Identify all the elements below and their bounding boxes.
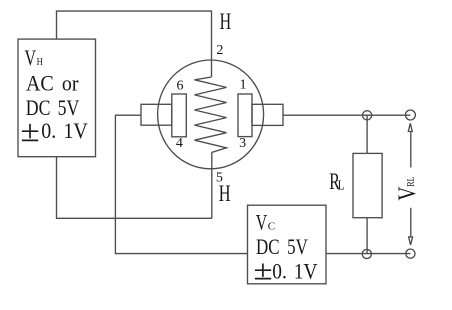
terminal bottom-right bbox=[406, 249, 415, 258]
svg-text:C: C bbox=[268, 222, 275, 233]
VRL arrow down bbox=[409, 237, 413, 245]
svg-text:2: 2 bbox=[216, 43, 223, 58]
voltage source VC box bbox=[248, 205, 327, 284]
terminal top-right bbox=[405, 110, 415, 120]
heater resistor zigzag bbox=[195, 77, 227, 153]
svg-text:L: L bbox=[338, 177, 345, 192]
wire: top junction down to RL bbox=[366, 115, 368, 153]
svg-text:1: 1 bbox=[240, 78, 247, 93]
svg-text:H: H bbox=[220, 9, 232, 34]
svg-text:6: 6 bbox=[177, 78, 184, 93]
resistor RL bbox=[353, 153, 382, 217]
svg-text:0. 1V: 0. 1V bbox=[272, 258, 317, 283]
svg-text:0. 1V: 0. 1V bbox=[41, 118, 88, 143]
label plus-minus 0.1V bbox=[22, 124, 38, 140]
sensor heater bottom lead (pin 5) bbox=[211, 153, 213, 219]
electrode plate right (pins 1-3) bbox=[238, 94, 252, 137]
label plus-minus 0.1V (VC) bbox=[255, 264, 271, 279]
left terminal tab bbox=[141, 104, 172, 125]
label VC bbox=[256, 210, 275, 235]
label VH bbox=[25, 45, 44, 70]
wire: left electrode to VC source bbox=[115, 115, 247, 253]
right terminal tab bbox=[252, 104, 283, 125]
wire: VC source to bottom terminal bbox=[326, 253, 410, 255]
svg-text:4: 4 bbox=[176, 136, 183, 151]
wire: VH bottom terminal to sensor heater pin 5 bbox=[57, 157, 212, 219]
wire: right electrode to measuring terminal bbox=[283, 114, 410, 116]
wire: VH top terminal to sensor heater pin 2 bbox=[57, 11, 212, 77]
junction node at RL top bbox=[363, 111, 372, 120]
svg-text:H: H bbox=[219, 181, 231, 207]
junction node at RL bottom bbox=[362, 249, 371, 258]
voltage source VH box bbox=[18, 39, 96, 157]
svg-text:DC 5V: DC 5V bbox=[26, 95, 80, 120]
electrode plate left (pins 6-4) bbox=[172, 94, 187, 137]
label RL bbox=[329, 169, 344, 194]
svg-text:VRL: VRL bbox=[394, 177, 421, 201]
VRL measure line upper bbox=[410, 132, 412, 168]
wire: RL bottom to bottom junction bbox=[366, 218, 368, 254]
svg-text:V: V bbox=[256, 210, 267, 235]
VRL arrow up bbox=[408, 123, 412, 131]
svg-text:DC 5V: DC 5V bbox=[256, 234, 308, 259]
svg-text:3: 3 bbox=[239, 136, 246, 151]
svg-text:H: H bbox=[37, 57, 44, 68]
VRL measure line lower bbox=[410, 208, 412, 237]
sensor envelope circle bbox=[158, 60, 264, 169]
svg-text:V: V bbox=[25, 45, 37, 70]
svg-text:AC or: AC or bbox=[26, 70, 79, 95]
